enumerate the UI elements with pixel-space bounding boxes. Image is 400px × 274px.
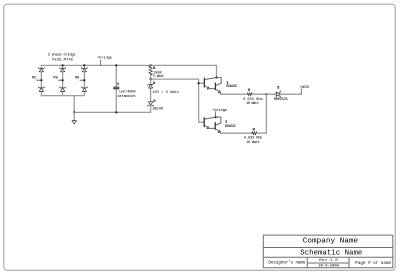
svg-text:3 phase bridge: 3 phase bridge — [48, 53, 76, 58]
diode bridge lower 2 — [59, 87, 65, 92]
diode D3 — [147, 100, 163, 112]
svg-text:Ph3: Ph3 — [75, 76, 79, 81]
wire bridge center drop — [73, 96, 75, 113]
diode D2 MBR2535 — [274, 87, 288, 103]
wire R2 to D2 — [252, 93, 276, 95]
junction dot base split — [198, 82, 200, 84]
svg-text:D1: D1 — [153, 82, 157, 86]
svg-text:Company Name: Company Name — [303, 238, 359, 246]
svg-text:D3: D3 — [153, 100, 156, 104]
wire T2 emitter to R3 — [221, 132, 252, 134]
junction dot R2-R3 — [265, 93, 267, 95]
junction dot R1 bottom — [150, 78, 152, 80]
zener diode D1 — [148, 79, 180, 102]
transistor T2 BDW83C — [204, 117, 237, 133]
node +bridge label — [97, 56, 112, 66]
svg-text:Designer's name: Designer's name — [268, 261, 306, 266]
svg-text:R3: R3 — [253, 129, 256, 133]
svg-text:20-6-2009: 20-6-2009 — [318, 265, 339, 269]
diode bridge upper 3 — [81, 68, 87, 72]
svg-text:Ph1: Ph1 — [32, 76, 37, 81]
svg-text:1uF/400V: 1uF/400V — [119, 89, 137, 94]
svg-text:10V / 5 Watt: 10V / 5 Watt — [152, 90, 179, 95]
svg-text:5 Watt: 5 Watt — [153, 75, 164, 79]
svg-text:VS36_MT48: VS36_MT48 — [52, 58, 73, 62]
junction dot T2 collector — [215, 116, 217, 118]
wire T1 collector drop — [216, 65, 218, 77]
diode bridge upper 1 — [38, 68, 44, 72]
wire bridge column 1 — [40, 65, 42, 95]
junction dot rail — [73, 111, 75, 113]
node Ph1 — [32, 76, 43, 82]
capacitor C1 — [114, 64, 137, 113]
svg-text:Ph2: Ph2 — [53, 76, 57, 81]
wire bridge bottom bus — [41, 95, 84, 97]
resistor R2 — [243, 89, 263, 106]
svg-text:10 Watt: 10 Watt — [246, 102, 259, 106]
svg-text:+bridge: +bridge — [97, 56, 112, 61]
junction dot top bus col3 — [83, 64, 85, 66]
transistor T1 BDW83C — [204, 78, 238, 95]
wire D2 to +ACCU — [280, 93, 302, 95]
svg-text:10 Watt: 10 Watt — [246, 141, 260, 145]
node Ph2 — [53, 76, 63, 82]
ground — [72, 112, 77, 124]
wire R3 up to junction — [257, 94, 267, 133]
resistor R1 — [149, 64, 164, 79]
wire bottom rail — [74, 111, 150, 113]
resistor R3 — [244, 129, 263, 145]
wire +bridge top bus — [41, 64, 216, 66]
node +ACCU — [300, 86, 310, 94]
svg-text:R2: R2 — [248, 89, 251, 93]
svg-text:Rev 1.0: Rev 1.0 — [319, 259, 338, 263]
junction dot T1 collector — [215, 76, 217, 78]
wire bridge column 3 — [83, 65, 85, 95]
svg-text:BDW83C: BDW83C — [226, 85, 238, 89]
diode bridge upper 2 — [59, 68, 65, 72]
svg-text:Page # or name: Page # or name — [355, 262, 391, 266]
svg-text:R1: R1 — [153, 67, 156, 71]
svg-text:C1: C1 — [117, 83, 121, 87]
diode bridge lower 1 — [38, 87, 44, 92]
diode bridge lower 3 — [81, 87, 87, 92]
node +bridge at T2 — [212, 108, 227, 117]
svg-text:MBR2535: MBR2535 — [274, 98, 288, 102]
svg-text:SB140: SB140 — [153, 107, 164, 111]
svg-text:keramisch: keramisch — [118, 94, 136, 99]
svg-text:D2: D2 — [277, 87, 280, 91]
svg-text:0.033 Ohm: 0.033 Ohm — [244, 136, 263, 141]
wire T1 emitter to R2 — [221, 93, 248, 95]
title block frame — [263, 235, 393, 268]
junction dot top bus col2 — [62, 64, 64, 66]
svg-text:BDW83C: BDW83C — [225, 125, 237, 129]
node Ph3 — [75, 76, 86, 82]
wire bridge column 2 — [62, 65, 64, 95]
svg-text:+bridge: +bridge — [212, 108, 227, 113]
svg-text:Schematic Name: Schematic Name — [300, 250, 362, 258]
wire base bus R1 to T1/T2 — [151, 79, 205, 122]
